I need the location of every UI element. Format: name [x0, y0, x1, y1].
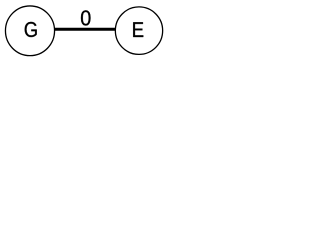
wire: edge G--E: [53, 28, 116, 31]
label E: [133, 22, 143, 37]
node G circle: [5, 6, 54, 56]
edge label 0: [81, 10, 90, 25]
node E circle: [115, 7, 162, 55]
label G: [25, 22, 37, 37]
background: [0, 0, 168, 61]
